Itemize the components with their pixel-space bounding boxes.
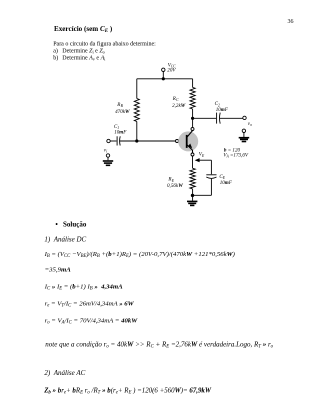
svg-text:=35,9mA: =35,9mA <box>45 267 72 274</box>
svg-text:note que a condição ro = 40kW: note que a condição ro = 40kW >> RC + RE… <box>45 340 273 349</box>
svg-text:20V: 20V <box>167 68 176 74</box>
svg-text:0,56kW: 0,56kW <box>167 183 183 189</box>
svg-text:10mF: 10mF <box>216 107 229 113</box>
svg-text:10mF: 10mF <box>220 180 233 186</box>
svg-text:IB = (VCC −VBE)/(RB +(b+1)RE): IB = (VCC −VBE)/(RB +(b+1)RE) = (20V-0,7… <box>44 251 236 259</box>
svg-text:36: 36 <box>288 19 294 25</box>
svg-text:re = VT/IC = 26mV/4,34mA » 6W: re = VT/IC = 26mV/4,34mA » 6W <box>45 301 135 309</box>
svg-text:ro = VA/IC = 70V/4,34mA = 40kW: ro = VA/IC = 70V/4,34mA = 40kW <box>45 317 139 325</box>
svg-text:470kW: 470kW <box>115 109 130 115</box>
svg-text:10mF: 10mF <box>114 129 127 135</box>
svg-text:Para o circuito da figura abai: Para o circuito da figura abaixo determi… <box>53 40 156 47</box>
svg-text:2) Análise AC: 2) Análise AC <box>44 369 85 377</box>
svg-text:Zb » bre+ bRE ro /RT » b(re+ R: Zb » bre+ bRE ro /RT » b(re+ RE ) =120(6… <box>43 387 212 395</box>
svg-text:Exercício (sem CE ): Exercício (sem CE ) <box>54 25 113 34</box>
svg-text:1) Análise DC: 1) Análise DC <box>44 235 86 243</box>
svg-text:i: i <box>106 150 107 154</box>
svg-text:o: o <box>250 123 252 127</box>
svg-text:2,2kW: 2,2kW <box>172 103 186 109</box>
svg-text:IC » IE = (b+1) IB » 4,34mA: IC » IE = (b+1) IB » 4,34mA <box>44 283 123 291</box>
